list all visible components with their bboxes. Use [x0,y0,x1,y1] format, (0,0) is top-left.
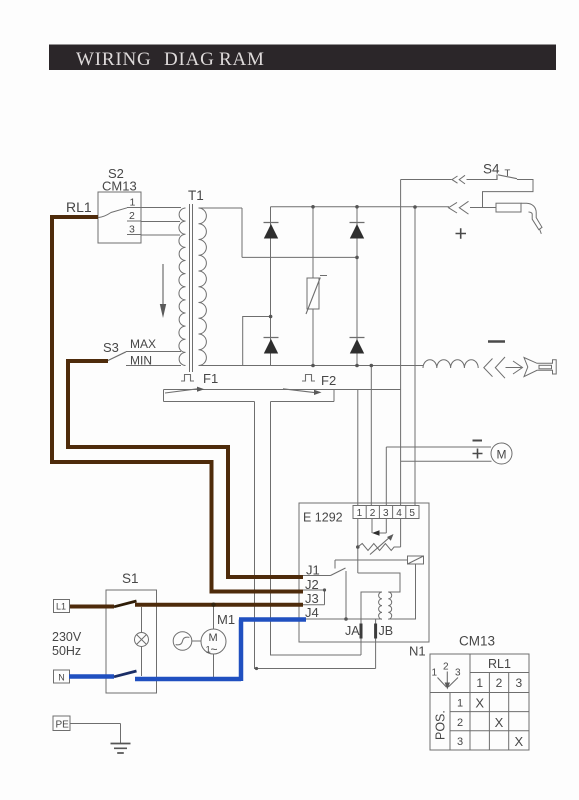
svg-text:X: X [495,715,504,730]
svg-text:T1: T1 [188,188,204,203]
svg-text:N: N [58,672,65,682]
svg-text:POS.: POS. [434,710,448,740]
svg-text:J1: J1 [306,563,320,578]
svg-text:2: 2 [370,508,376,519]
svg-text:F2: F2 [321,373,336,388]
svg-text:N1: N1 [409,644,426,659]
svg-text:J3: J3 [305,591,319,606]
svg-text:S3: S3 [103,340,119,355]
svg-text:L1: L1 [56,602,66,612]
svg-text:MIN: MIN [130,354,152,368]
svg-text:JA: JA [345,624,360,638]
svg-text:4: 4 [396,508,402,519]
svg-text:PE: PE [56,720,70,731]
svg-text:1: 1 [130,197,136,209]
svg-text:CM13: CM13 [459,634,495,649]
svg-text:2: 2 [129,210,135,222]
svg-text:M: M [497,448,507,462]
svg-text:50Hz: 50Hz [52,644,81,658]
svg-text:RL1: RL1 [66,199,92,215]
svg-text:~: ~ [211,643,218,657]
svg-text:J4: J4 [305,605,319,620]
svg-text:2: 2 [443,662,449,673]
svg-text:WIRINGDIAGRAM: WIRINGDIAGRAM [76,49,265,70]
svg-text:3: 3 [457,736,463,748]
svg-text:2: 2 [457,717,463,729]
svg-text:S1: S1 [122,571,139,586]
svg-text:3: 3 [129,224,135,236]
svg-text:1: 1 [457,698,463,710]
svg-text:X: X [514,734,523,749]
svg-text:3: 3 [455,668,461,679]
svg-text:MAX: MAX [130,337,156,351]
svg-text:JB: JB [379,624,394,638]
svg-text:F1: F1 [203,371,218,386]
svg-text:T: T [505,168,511,179]
svg-text:J2: J2 [305,577,319,592]
svg-text:2: 2 [496,676,503,690]
svg-text:5: 5 [409,508,415,519]
svg-text:RL1: RL1 [488,657,511,671]
svg-text:E 1292: E 1292 [303,511,343,525]
svg-text:230V: 230V [52,630,82,644]
svg-text:S4: S4 [483,162,500,177]
svg-text:X: X [475,696,484,711]
svg-text:1: 1 [476,676,483,690]
svg-text:1: 1 [357,508,363,519]
svg-text:3: 3 [383,508,389,519]
svg-text:M1: M1 [217,612,235,627]
svg-text:1: 1 [432,668,438,679]
svg-text:3: 3 [515,676,522,690]
svg-text:CM13: CM13 [102,179,137,194]
